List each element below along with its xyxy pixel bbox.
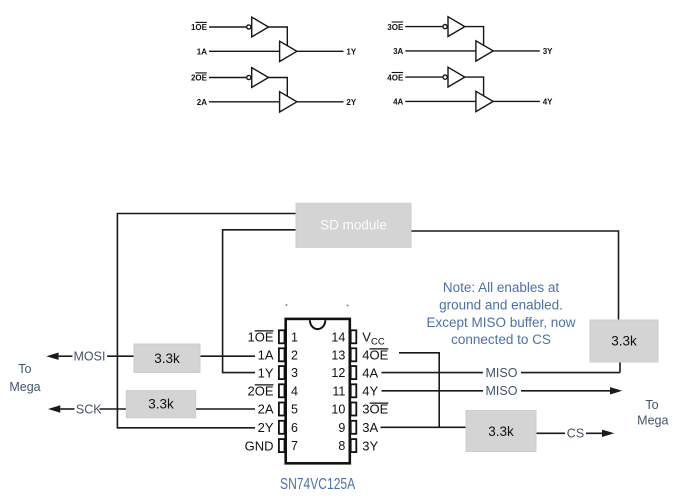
- svg-text:3.3k: 3.3k: [488, 424, 514, 439]
- svg-text:13: 13: [331, 348, 345, 362]
- svg-text:4Y: 4Y: [362, 384, 378, 399]
- svg-text:connected to CS: connected to CS: [451, 332, 551, 347]
- svg-text:9: 9: [338, 421, 345, 435]
- svg-text:3OE: 3OE: [362, 402, 388, 417]
- svg-text:GND: GND: [245, 438, 274, 453]
- svg-text:2Y: 2Y: [258, 420, 274, 435]
- svg-text:2OE: 2OE: [191, 74, 208, 83]
- svg-text:3A: 3A: [393, 47, 403, 56]
- svg-text:1: 1: [291, 330, 298, 344]
- svg-text:ground and enabled.: ground and enabled.: [439, 298, 563, 313]
- svg-text:1Y: 1Y: [258, 365, 274, 380]
- svg-text:Note: All enables at: Note: All enables at: [443, 280, 560, 295]
- svg-text:4Y: 4Y: [543, 98, 553, 107]
- svg-text:2A: 2A: [197, 98, 207, 107]
- svg-text:4A: 4A: [362, 365, 378, 380]
- svg-text:1A: 1A: [258, 348, 274, 363]
- svg-text:2A: 2A: [258, 402, 274, 417]
- svg-text:SCK: SCK: [76, 402, 102, 416]
- svg-text:1Y: 1Y: [346, 48, 356, 57]
- svg-text:CS: CS: [567, 427, 584, 441]
- svg-text:SN74VC125A: SN74VC125A: [280, 474, 356, 492]
- svg-text:1A: 1A: [197, 48, 207, 57]
- svg-text:MOSI: MOSI: [74, 350, 106, 364]
- svg-text:8: 8: [338, 439, 345, 453]
- svg-text:1OE: 1OE: [191, 23, 208, 32]
- svg-text:7: 7: [291, 439, 298, 453]
- svg-text:2: 2: [291, 348, 298, 362]
- svg-text:14: 14: [331, 330, 345, 344]
- svg-text:3.3k: 3.3k: [611, 334, 637, 349]
- svg-text:12: 12: [331, 366, 345, 380]
- svg-text:Except MISO buffer, now: Except MISO buffer, now: [426, 315, 575, 330]
- svg-text:To: To: [18, 362, 31, 376]
- svg-text:2Y: 2Y: [346, 98, 356, 107]
- svg-text:3.3k: 3.3k: [148, 397, 174, 412]
- svg-text:SD module: SD module: [320, 218, 387, 233]
- svg-text:6: 6: [291, 421, 298, 435]
- svg-text:3Y: 3Y: [543, 47, 553, 56]
- svg-text:Mega: Mega: [9, 380, 40, 394]
- svg-text:To: To: [645, 398, 658, 412]
- svg-text:4A: 4A: [393, 98, 403, 107]
- svg-text:3Y: 3Y: [362, 438, 378, 453]
- svg-text:10: 10: [331, 403, 345, 417]
- svg-text:MISO: MISO: [486, 366, 518, 380]
- svg-text:2OE: 2OE: [247, 384, 273, 399]
- svg-text:3.3k: 3.3k: [154, 351, 180, 366]
- svg-text:4OE: 4OE: [362, 348, 388, 363]
- svg-text:MISO: MISO: [486, 384, 518, 398]
- svg-text:1OE: 1OE: [247, 330, 273, 345]
- svg-text:3: 3: [291, 366, 298, 380]
- svg-text:4OE: 4OE: [387, 73, 404, 82]
- svg-text:3OE: 3OE: [387, 23, 404, 32]
- svg-text:11: 11: [332, 384, 345, 398]
- svg-text:5: 5: [291, 403, 298, 417]
- svg-text:3A: 3A: [362, 420, 378, 435]
- svg-text:4: 4: [291, 384, 298, 398]
- svg-text:Mega: Mega: [637, 414, 668, 428]
